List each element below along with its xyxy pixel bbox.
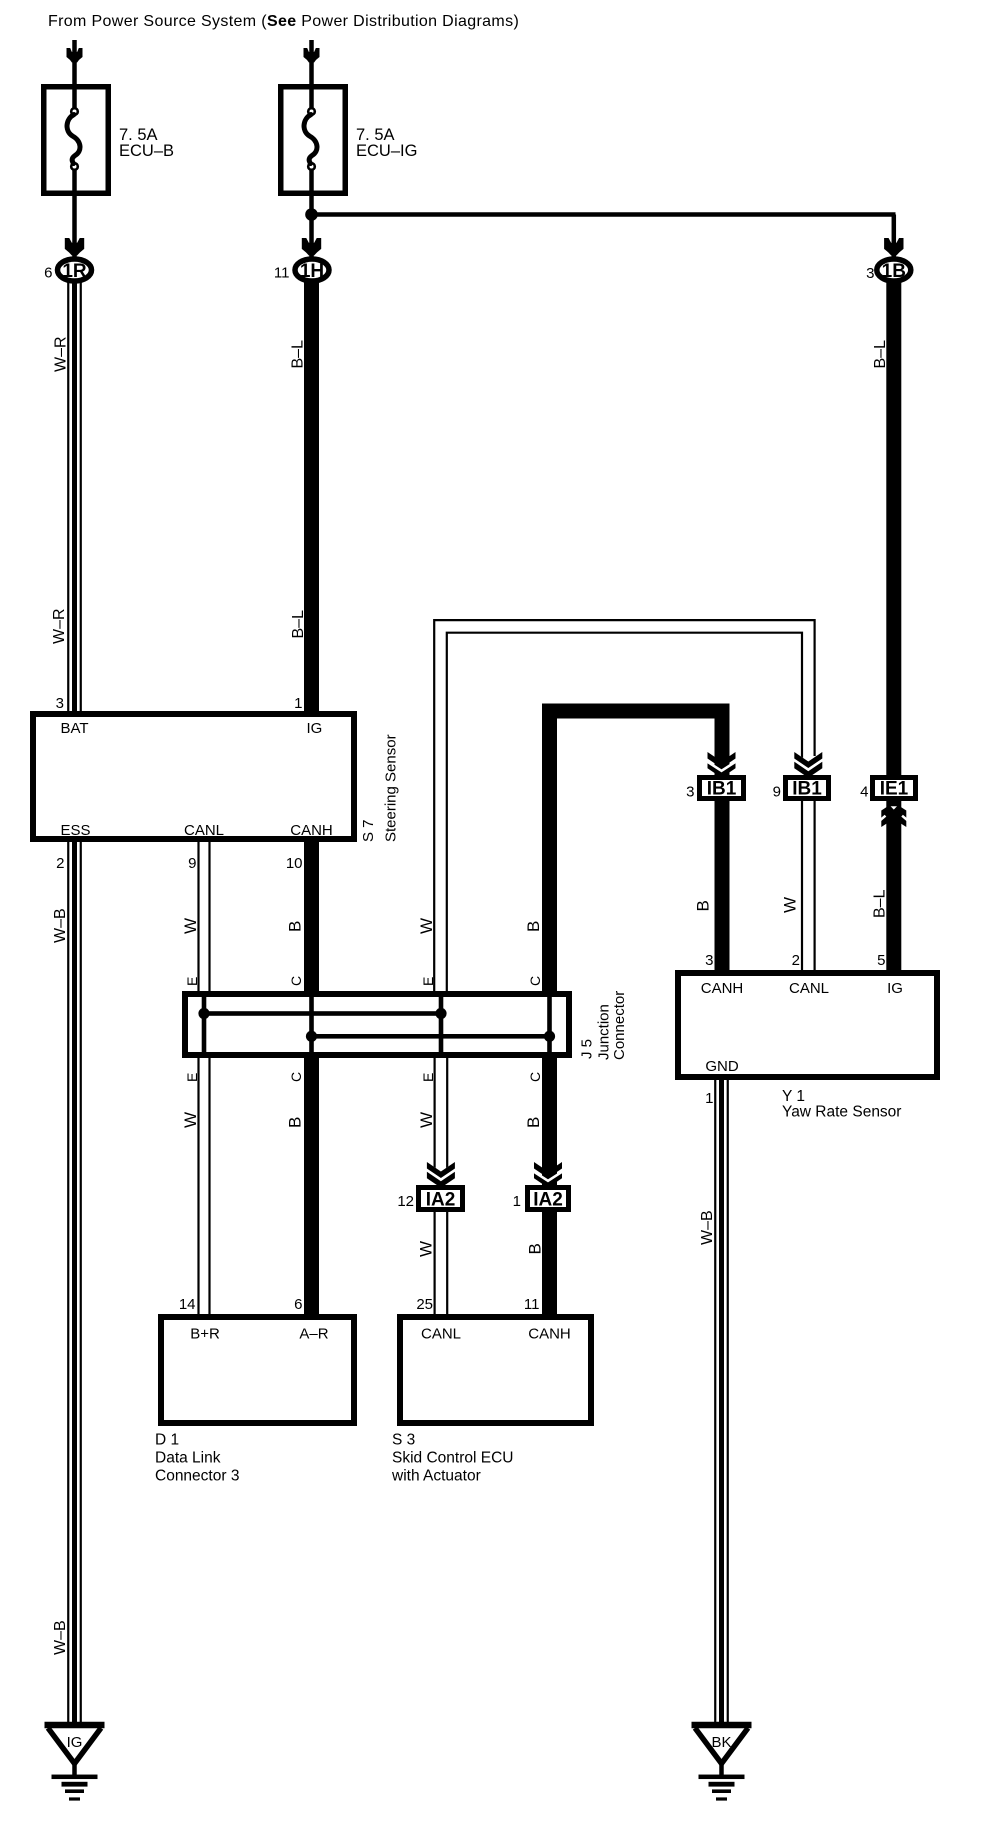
svg-text:2: 2 [792,952,800,969]
svg-text:CANL: CANL [184,822,224,839]
svg-text:CANH: CANH [528,1326,571,1343]
svg-text:B–L: B–L [872,340,889,369]
svg-text:Y 1: Y 1 [782,1088,805,1105]
svg-text:2: 2 [56,855,64,872]
svg-text:C: C [527,1072,543,1082]
svg-text:E: E [184,977,200,986]
svg-text:C: C [288,976,304,986]
svg-text:C: C [527,976,543,986]
svg-text:with Actuator: with Actuator [391,1468,481,1485]
svg-text:B+R: B+R [190,1326,220,1343]
svg-text:3: 3 [866,265,874,282]
svg-text:Junction: Junction [596,1004,613,1060]
svg-text:From Power Source System (See: From Power Source System (See Power Dist… [48,13,519,30]
svg-text:9: 9 [773,784,781,801]
svg-text:IB1: IB1 [792,779,822,800]
svg-text:3: 3 [705,952,713,969]
svg-text:11: 11 [524,1296,540,1313]
svg-text:A–R: A–R [299,1326,328,1343]
svg-text:B: B [286,921,305,932]
svg-text:12: 12 [397,1193,414,1210]
svg-text:W: W [417,1112,436,1128]
svg-text:Connector: Connector [611,991,628,1060]
svg-text:6: 6 [44,265,52,282]
svg-text:1H: 1H [300,261,324,282]
svg-text:B: B [526,1243,545,1254]
svg-text:W–B: W–B [52,1620,69,1655]
svg-text:B: B [694,900,713,911]
svg-text:W: W [181,1112,200,1128]
svg-text:10: 10 [286,855,303,872]
svg-text:B–L: B–L [872,889,889,918]
svg-text:CANH: CANH [290,822,333,839]
svg-text:IE1: IE1 [880,779,909,800]
svg-text:Skid Control ECU: Skid Control ECU [392,1450,513,1467]
svg-text:IB1: IB1 [707,779,737,800]
svg-text:11: 11 [274,265,290,282]
svg-text:C: C [288,1072,304,1082]
svg-text:9: 9 [188,855,196,872]
svg-text:W–R: W–R [53,336,70,372]
svg-text:Connector 3: Connector 3 [155,1468,239,1485]
svg-text:CANL: CANL [789,980,829,997]
svg-text:IG: IG [887,980,903,997]
svg-text:ECU–B: ECU–B [119,142,174,160]
svg-text:S 3: S 3 [392,1432,415,1449]
svg-text:3: 3 [56,695,64,712]
svg-text:W: W [417,918,436,934]
svg-text:IG: IG [307,720,323,737]
svg-text:W: W [781,897,800,913]
svg-text:ESS: ESS [61,822,91,839]
svg-text:W–B: W–B [52,908,69,943]
svg-text:1: 1 [294,695,302,712]
svg-text:4: 4 [860,784,868,801]
svg-text:E: E [420,977,436,986]
svg-text:W–R: W–R [51,608,68,644]
svg-text:IA2: IA2 [533,1190,563,1211]
svg-text:6: 6 [294,1296,302,1313]
svg-text:J 5: J 5 [579,1039,596,1059]
svg-text:BK: BK [711,1734,731,1751]
svg-text:IA2: IA2 [426,1190,456,1211]
svg-text:CANH: CANH [701,980,744,997]
svg-text:B–L: B–L [290,340,307,369]
svg-text:1: 1 [705,1090,713,1107]
svg-text:W: W [417,1241,436,1257]
svg-text:1R: 1R [62,261,87,282]
svg-text:GND: GND [705,1058,739,1075]
svg-text:25: 25 [416,1296,433,1313]
svg-text:1B: 1B [882,261,906,282]
svg-text:S 7: S 7 [360,819,377,842]
svg-text:W–B: W–B [699,1210,716,1245]
svg-text:W: W [181,918,200,934]
svg-text:B: B [286,1117,305,1128]
svg-text:D 1: D 1 [155,1432,179,1449]
svg-text:Yaw Rate Sensor: Yaw Rate Sensor [782,1104,901,1121]
svg-text:BAT: BAT [61,720,89,737]
svg-text:CANL: CANL [421,1326,461,1343]
svg-text:IG: IG [67,1734,83,1751]
svg-text:3: 3 [686,784,694,801]
svg-text:E: E [184,1073,200,1082]
svg-text:1: 1 [513,1193,521,1210]
svg-text:Data Link: Data Link [155,1450,221,1467]
svg-text:Steering Sensor: Steering Sensor [383,734,400,842]
svg-text:B: B [524,921,543,932]
svg-text:B–L: B–L [290,610,307,639]
svg-text:B: B [524,1117,543,1128]
svg-text:5: 5 [877,952,885,969]
svg-text:14: 14 [179,1296,196,1313]
svg-text:ECU–IG: ECU–IG [356,142,417,160]
svg-text:E: E [420,1073,436,1082]
